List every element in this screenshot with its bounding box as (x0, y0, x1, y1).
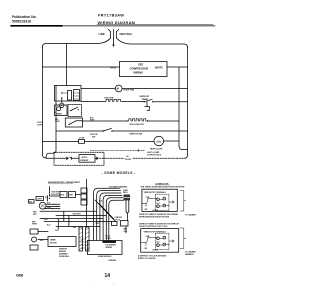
svg-text:SEE: SEE (138, 63, 143, 67)
svg-text:DEFROST TIMER IS SHOWN IN THE: DEFROST TIMER IS SHOWN IN THE NORMAL (139, 213, 179, 216)
svg-text:COLD: COLD (37, 122, 43, 124)
svg-text:EVA HTR: EVA HTR (105, 97, 114, 100)
svg-text:REFR DR SW: REFR DR SW (130, 134, 143, 136)
svg-text:THE TIMER CAN BE REPLACED FROM: THE TIMER CAN BE REPLACED FROM THE FRONT (141, 186, 186, 189)
svg-text:DOOR: DOOR (125, 159, 132, 161)
svg-text:GIB: GIB (16, 272, 23, 277)
svg-text:LINE: LINE (99, 32, 105, 36)
svg-text:SW: SW (92, 137, 95, 139)
svg-text:CONT: CONT (37, 125, 44, 127)
svg-text:SOME MODELS: SOME MODELS (98, 256, 112, 258)
svg-text:ON FRONT MOLD: ON FRONT MOLD (147, 155, 162, 157)
svg-text:BLK W/TR: BLK W/TR (52, 194, 61, 196)
svg-text:FRZ DR: FRZ DR (90, 134, 98, 136)
svg-text:TIMER MOTOR TERMINALS: TIMER MOTOR TERMINALS (144, 191, 167, 194)
svg-text:3: 3 (164, 237, 165, 239)
svg-text:CONNECTOR: CONNECTOR (155, 183, 169, 185)
svg-text:EVAP FAN: EVAP FAN (124, 89, 135, 92)
svg-text:WIRING: WIRING (134, 70, 144, 74)
svg-text:- SOME MODELS -: - SOME MODELS - (102, 171, 136, 175)
svg-text:MODE POSITION OF THE CYCLE: MODE POSITION OF THE CYCLE (139, 226, 168, 228)
svg-text:MDLS: MDLS (123, 192, 128, 194)
svg-text:5995218318: 5995218318 (12, 19, 31, 23)
svg-text:TIMER: TIMER (142, 99, 149, 101)
svg-text:RUN: RUN (111, 66, 116, 69)
svg-text:AUTO: AUTO (82, 156, 88, 159)
svg-text:Publication No.: Publication No. (12, 15, 37, 19)
svg-text:MOT: MOT (157, 203, 160, 205)
svg-text:NEUTRAL: NEUTRAL (120, 32, 133, 36)
svg-text:TIMER: TIMER (56, 114, 63, 116)
svg-text:260948: 260948 (109, 259, 117, 262)
svg-text:SOME MDLS: SOME MDLS (59, 256, 70, 258)
svg-text:14: 14 (105, 273, 111, 279)
svg-text:PLUG: PLUG (116, 219, 121, 221)
svg-text:REFR LIGHT: REFR LIGHT (150, 148, 163, 150)
svg-text:TO CABINET: TO CABINET (185, 250, 197, 253)
svg-text:M: M (117, 87, 119, 91)
svg-text:REFRIGERATION MODE POSITION: REFRIGERATION MODE POSITION (139, 216, 169, 219)
svg-text:BLK W/TR: BLK W/TR (73, 213, 82, 215)
svg-text:ICE MAKER: ICE MAKER (106, 244, 117, 247)
svg-text:SOME: SOME (123, 190, 128, 192)
svg-text:LT SW: LT SW (79, 138, 85, 140)
svg-text:MULLION HTR: MULLION HTR (130, 124, 145, 126)
svg-text:MOT: MOT (157, 242, 160, 244)
svg-text:HEATER: HEATER (59, 250, 67, 253)
svg-text:ICEMKR: ICEMKR (80, 160, 89, 162)
svg-text:ICE MAKER HARNESS: ICE MAKER HARNESS (109, 186, 128, 189)
svg-text:TO CABINET: TO CABINET (185, 214, 197, 217)
svg-text:TERM: TERM (32, 224, 37, 226)
svg-text:TIMER: TIMER (50, 240, 56, 242)
svg-text:A DEFROST CYCLE IS INITIATED: A DEFROST CYCLE IS INITIATED (138, 254, 167, 257)
svg-text:WHITE: WHITE (155, 66, 163, 69)
svg-text:COMPRESSOR: COMPRESSOR (130, 67, 149, 71)
svg-text:3: 3 (164, 198, 165, 200)
svg-text:FRT17B3AW: FRT17B3AW (98, 14, 124, 18)
svg-text:HARNESS: HARNESS (185, 253, 195, 256)
svg-text:WIRING: WIRING (106, 247, 113, 249)
svg-text:LIGHT & LINER: LIGHT & LINER (147, 152, 160, 154)
svg-text:WIRING DIAGRAM: WIRING DIAGRAM (98, 20, 136, 25)
svg-text:WHT: WHT (96, 223, 100, 225)
svg-text:MOTOR: MOTOR (50, 243, 57, 245)
svg-text:EVERY 8 1/2 HOURS: EVERY 8 1/2 HOURS (138, 258, 156, 260)
svg-text:ASSEMBLY: ASSEMBLY (59, 253, 69, 256)
svg-text:CONN: CONN (106, 238, 112, 240)
